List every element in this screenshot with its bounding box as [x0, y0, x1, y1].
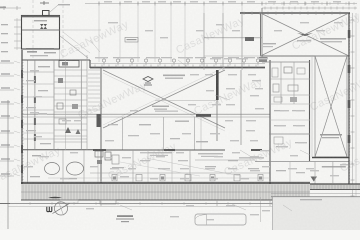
lower right divider	[289, 162, 291, 184]
label box top middle	[125, 38, 138, 43]
right block h wall d	[269, 133, 310, 135]
driveway grey block	[273, 197, 360, 230]
deck top wall	[21, 182, 310, 184]
right deck bottom edge	[310, 189, 360, 191]
right dimension line 2	[355, 13, 357, 207]
left margin annotation rows	[0, 62, 14, 64]
closet wall vertical	[240, 70, 242, 145]
chimney leader	[50, 5, 58, 12]
core wall v1	[34, 60, 36, 150]
parking space outline	[195, 214, 246, 225]
left block h wall d	[22, 138, 87, 140]
top-left dimension line	[0, 7, 21, 9]
plan title underline	[121, 221, 129, 222]
left room labels	[38, 66, 50, 67]
strip left gap lines	[311, 56, 313, 157]
driveway inner label	[300, 199, 322, 200]
core door sills	[34, 76, 36, 83]
lower room divider v3	[97, 150, 99, 183]
stair hall wall	[203, 13, 205, 70]
north circle	[54, 202, 67, 215]
box diagonal 1	[261, 13, 350, 56]
bedroom bottom wall	[100, 149, 225, 151]
ridge line	[155, 100, 216, 102]
bottom row wall left part	[195, 159, 255, 161]
grade ticks	[29, 202, 31, 205]
bath fixture r6	[274, 97, 282, 102]
screened porch strip	[315, 56, 347, 157]
garage lower marks	[27, 51, 37, 53]
right block h wall c	[270, 103, 310, 105]
bottom-left corner dash	[0, 203, 10, 205]
core wall v2	[53, 60, 55, 150]
stair treads	[88, 69, 100, 71]
mid lower v1	[132, 150, 134, 183]
left block h wall c	[22, 123, 54, 125]
left block h wall b2	[22, 109, 54, 111]
driveway top line	[271, 196, 360, 198]
deck step rect 2	[60, 200, 78, 203]
right top extra ticks	[265, 2, 267, 5]
wall stub below deck 3	[269, 200, 271, 206]
pre-deck faint line 2	[22, 180, 310, 182]
right deck band	[310, 185, 360, 190]
hall dark label	[245, 37, 254, 41]
deck hatch lines	[22, 185, 24, 200]
right wall window sills	[348, 30, 351, 38]
dining ellipse 2	[67, 162, 84, 175]
box diagonal 2	[261, 13, 350, 56]
core wall v4	[80, 60, 82, 150]
core fixture 4	[72, 104, 78, 109]
shrub symbols above top wall	[102, 59, 105, 62]
roof diagonal	[60, 36, 88, 58]
right dim ticks	[351, 19, 355, 21]
bath fixture m4	[97, 160, 102, 164]
lower rooms top wall	[21, 149, 101, 151]
box room top of left block	[59, 61, 79, 68]
left wall hatch ticks	[21, 61, 24, 63]
garage inner wall	[22, 29, 60, 31]
property stub line	[260, 197, 262, 222]
fixtures row above deck	[112, 175, 117, 182]
right deck hatch	[310, 185, 312, 189]
wall ticks top-right	[243, 12, 245, 16]
omega scale glyph	[47, 207, 52, 212]
entry wall continuation	[216, 100, 218, 141]
right block h wall b	[270, 94, 310, 96]
bath fixture r5	[288, 85, 298, 91]
main top wall upper line	[90, 63, 265, 65]
core wall v3	[65, 60, 67, 150]
lower right fan symbol	[311, 177, 318, 182]
core wall v5	[86, 55, 88, 150]
lower room diagonal leader 2	[120, 162, 200, 176]
core fixture 5	[59, 119, 66, 124]
mid lower v3	[171, 150, 173, 183]
lower right divider 3	[332, 162, 334, 184]
lower room divider v2	[83, 150, 85, 183]
door sill seg 3	[251, 149, 262, 151]
left wall window sills	[21, 70, 23, 78]
bedroom wall v1	[121, 117, 123, 150]
box center glyph	[297, 33, 313, 36]
right block west wall	[269, 60, 271, 185]
grade line 1	[0, 203, 360, 205]
strip diagonal 2	[315, 56, 347, 157]
dark step lens	[48, 197, 62, 199]
core fixture 2	[70, 90, 76, 95]
plan title text 2	[116, 218, 134, 219]
mid lower h wall	[90, 172, 270, 174]
left block h wall a	[22, 71, 54, 73]
lower right label	[322, 166, 346, 168]
mid lower v4	[189, 150, 191, 183]
text cluster row a	[147, 152, 172, 153]
great room text	[163, 75, 185, 77]
lower room divider v1	[62, 150, 64, 183]
core fixture 3	[57, 103, 63, 109]
scattered annotation blobs	[95, 57, 107, 58]
great room ceiling diagonal 2	[103, 70, 225, 128]
dashed vertical 2	[62, 0, 64, 60]
box vertical left edge	[261, 8, 263, 60]
bath fixture r2	[284, 67, 292, 73]
right step line 2	[271, 196, 360, 198]
corridor dark segment	[196, 114, 211, 117]
bedroom wall v2	[162, 117, 164, 150]
window ticks on top wall	[94, 65, 96, 68]
box room inner mark	[62, 62, 68, 66]
left block h wall b	[22, 96, 54, 98]
hall lower wall	[204, 55, 262, 57]
roof diagonal 2	[63, 32, 90, 53]
stair hall wall 2	[222, 13, 224, 70]
right block h wall a	[270, 78, 310, 80]
right wall hatch ticks	[348, 15, 350, 17]
core ladder lines	[54, 69, 87, 71]
grade line 2	[8, 206, 360, 208]
lower mid labels	[112, 167, 124, 168]
text cluster row b	[198, 153, 223, 154]
bath fixture m1	[95, 151, 103, 157]
main top wall band	[90, 67, 265, 69]
second dimension line right	[262, 7, 357, 9]
garage edge connector	[59, 49, 61, 61]
crown symbol	[143, 77, 153, 86]
parking inner line	[206, 215, 208, 225]
right block v divider 1	[280, 62, 282, 104]
deck step rect	[100, 200, 116, 204]
deck band bottom edge	[21, 199, 310, 201]
bedroom wall v3	[194, 117, 196, 150]
bath fixture m2	[105, 152, 111, 160]
right block east wall	[309, 60, 311, 161]
annotation row above wall	[97, 57, 108, 58]
lower right divider 2	[314, 162, 316, 187]
right mid room divider	[270, 119, 310, 121]
plan title text	[117, 215, 133, 217]
top dimension line	[85, 3, 357, 5]
driveway left line	[272, 197, 274, 230]
text cluster row c	[239, 157, 264, 158]
right deck top edge	[310, 183, 360, 185]
top-left corner text	[0, 7, 6, 9]
stair dark bar	[97, 114, 101, 127]
bedroom labels	[175, 121, 189, 122]
strip diagonal 1	[315, 56, 347, 157]
top-right exterior wall	[240, 12, 350, 14]
mid lower v2	[147, 150, 149, 183]
box small label	[297, 40, 311, 41]
door sill seg 1	[93, 149, 106, 151]
plant glyph 1	[65, 127, 71, 133]
great room ceiling diagonal 1b	[103, 73, 225, 131]
core fixture 1	[58, 78, 63, 83]
north needle	[53, 203, 70, 213]
right dimension line 1	[352, 13, 354, 207]
garage far-left dim marks	[1, 24, 8, 25]
grass scribbles	[274, 199, 293, 207]
right exterior wall	[348, 13, 350, 185]
lower room diagonal leader 1	[147, 158, 242, 176]
bath fixture r7	[290, 97, 297, 102]
right block v divider 2	[293, 62, 295, 104]
strip label	[320, 134, 342, 136]
lower right h wall	[255, 161, 349, 163]
left vertical dimension line	[7, 100, 9, 229]
furnace symbol	[40, 24, 47, 29]
right room small rect	[274, 137, 283, 144]
great room ceiling diagonal 2b	[103, 67, 225, 125]
leader lines	[215, 95, 230, 100]
hall mid wall	[204, 37, 262, 39]
left block h wall a2	[22, 83, 54, 85]
stair hall wall 3	[241, 13, 243, 70]
right block labels	[274, 110, 284, 111]
lower right marks	[276, 170, 286, 171]
north cross	[59, 202, 64, 216]
wall stub below deck 2	[216, 200, 218, 206]
top-left tick label	[40, 2, 49, 4]
dining ellipse 1	[45, 163, 60, 175]
bedroom wall v4	[200, 117, 202, 150]
future room box	[261, 13, 350, 56]
bath fixture r3	[297, 68, 305, 74]
right step line 1	[271, 193, 360, 195]
door sill seg 2	[164, 149, 175, 151]
entry thick wall	[216, 70, 219, 100]
right block top room wall	[262, 61, 310, 63]
wall stub below deck 1	[100, 200, 102, 206]
plant glyph 2	[76, 129, 81, 134]
box label text	[320, 38, 346, 40]
garage door sill	[26, 48, 54, 50]
scan noise overlay	[0, 0, 1, 1]
left block h wall c2	[22, 132, 54, 134]
box left text	[263, 43, 276, 44]
great room text 3	[155, 111, 178, 112]
chimney stub	[43, 11, 50, 16]
garage line to house	[60, 29, 102, 31]
garage top wall band	[22, 16, 60, 18]
deck hatch band	[21, 184, 310, 200]
dimension number blobs top	[104, 1, 112, 2]
bath fixture r4	[273, 84, 279, 92]
left exterior wall inner	[27, 60, 29, 183]
strip bottom wall	[312, 157, 349, 159]
garage left dim ticks	[14, 19, 21, 21]
garage label	[34, 20, 47, 21]
left exterior wall	[21, 50, 23, 184]
grid verticals upper area	[98, 4, 100, 62]
wall step connector	[89, 60, 91, 68]
great room ceiling diagonal 1	[103, 70, 225, 128]
great room text 2	[152, 106, 169, 108]
pre-deck faint line 1	[48, 177, 270, 179]
great room left wall	[100, 68, 102, 183]
deck band mid line	[21, 191, 310, 193]
lower-left fixture marks	[32, 155, 41, 156]
garage outline	[22, 16, 60, 50]
top wall left block	[22, 59, 90, 61]
dashed vertical from garage	[32, 0, 34, 60]
fixtures row fill marks	[113, 177, 116, 180]
bath fixture r1	[272, 68, 278, 77]
dark cluster box corner	[259, 57, 267, 62]
corridor wall upper	[22, 113, 270, 115]
parking hood curve	[196, 215, 207, 219]
corridor wall lower	[22, 116, 270, 118]
bath fixture m3	[112, 155, 119, 164]
